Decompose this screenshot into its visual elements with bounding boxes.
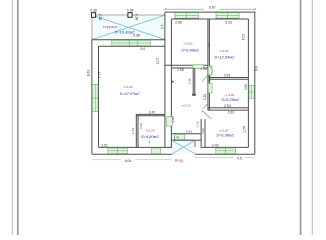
svg-text:0.41: 0.41 [186, 129, 192, 133]
svg-text:2.53: 2.53 [224, 104, 231, 108]
corridor partition wall [193, 68, 195, 95]
svg-text:п-3.20: п-3.20 [146, 129, 155, 133]
small room left wall line b [137, 116, 139, 148]
door swing into bottom-right room [203, 111, 212, 119]
wall between terrace/living room and rooms: outer line [164, 12, 166, 147]
corridor top wall inner line [171, 67, 208, 69]
svg-text:2.32: 2.32 [139, 123, 143, 129]
wall rooms 1-2 / middle room left: line a [207, 19, 209, 110]
outer wall: bottom left section inner line [99, 146, 172, 148]
svg-text:S=5.29м2: S=5.29м2 [221, 97, 240, 102]
corridor top wall outer line [165, 64, 208, 66]
svg-text:S=12.54м2: S=12.54м2 [214, 55, 235, 60]
svg-text:2.10: 2.10 [203, 94, 207, 100]
sheet frame right thick line [300, 0, 302, 235]
svg-text:6.87: 6.87 [209, 5, 216, 9]
svg-text:4.51: 4.51 [242, 34, 246, 41]
dimension line 6.87 [164, 8, 256, 10]
outer wall: left inner line [98, 46, 100, 147]
door to room 2 [208, 66, 212, 75]
svg-text:S=47.87м2: S=47.87м2 [120, 91, 141, 96]
outer wall: bottom right section outer line [195, 153, 255, 155]
door swing lower [203, 103, 208, 109]
entrance door [174, 134, 184, 140]
window in right wall [249, 86, 254, 99]
svg-text:п-3.20: п-3.20 [124, 85, 133, 89]
dimension line 4.5 [195, 157, 255, 159]
outer wall: right outer line [254, 12, 256, 154]
terrace floor area [92, 15, 165, 40]
wall stub cap left of corridor [171, 81, 173, 83]
svg-text:терраса: терраса [103, 25, 118, 29]
porch diagonal cross [172, 140, 195, 154]
svg-text:1.74: 1.74 [243, 126, 247, 133]
door swing middle room [202, 76, 207, 82]
svg-text:0.90: 0.90 [208, 75, 212, 81]
small room bottom door [152, 148, 161, 154]
corridor partition end cap [192, 94, 196, 96]
terrace diagonal cross [92, 15, 165, 39]
small room top wall line a [136, 113, 165, 115]
wall middle room bottom line b [208, 109, 249, 111]
svg-text:8.63: 8.63 [86, 70, 90, 77]
svg-text:1.5: 1.5 [160, 24, 164, 29]
entrance porch area [172, 140, 195, 154]
wall room2 bottom line b [209, 78, 248, 80]
svg-text:0.38: 0.38 [127, 8, 134, 12]
sheet frame left thick line [17, 0, 19, 235]
outer wall: top of right section outer line [165, 11, 255, 13]
svg-text:S=9.99м2: S=9.99м2 [181, 47, 200, 52]
outer wall: top of left section inner line [99, 45, 166, 47]
outer wall: top of left section (below terrace) outer line [92, 39, 166, 41]
column 2 [128, 13, 132, 18]
svg-text:4.5: 4.5 [237, 156, 242, 160]
door swing room 2 [210, 66, 212, 75]
svg-text:п-3.20: п-3.20 [184, 42, 193, 46]
svg-text:2.60: 2.60 [244, 84, 248, 90]
outer wall: bottom left section outer line [92, 153, 172, 155]
window in bottom wall left [108, 148, 127, 154]
svg-text:3.33: 3.33 [225, 21, 232, 25]
svg-text:2.86: 2.86 [175, 21, 182, 25]
svg-text:6.04: 6.04 [125, 159, 132, 163]
door jamb mark [202, 110, 204, 112]
window 2 in top wall [216, 13, 239, 19]
window in left wall [92, 84, 98, 112]
svg-text:1.47: 1.47 [174, 135, 180, 139]
svg-text:2.91: 2.91 [101, 143, 108, 147]
wall rooms 1-2 / middle room left: line b [208, 19, 210, 110]
outer wall: top of right section inner line [171, 18, 248, 20]
door in corridor top wall [193, 65, 204, 69]
svg-text:2.43: 2.43 [212, 143, 219, 147]
svg-text:2.63: 2.63 [228, 110, 235, 114]
svg-text:1.73: 1.73 [131, 128, 135, 134]
svg-text:1.68: 1.68 [177, 68, 184, 72]
svg-text:S=4.80м2: S=4.80м2 [141, 134, 160, 139]
dimension line 6.04 [92, 159, 172, 161]
svg-text:7.57: 7.57 [97, 72, 101, 79]
door to middle room [208, 83, 212, 92]
svg-text:Вход: Вход [175, 158, 184, 162]
outer wall: right inner line [247, 19, 249, 147]
svg-text:0.38: 0.38 [134, 14, 138, 21]
column 1 [91, 13, 95, 18]
svg-text:0.38: 0.38 [90, 8, 97, 12]
hall bottom wall line b [171, 139, 201, 141]
window in bottom wall right [216, 148, 236, 154]
small room left wall line a [135, 114, 137, 147]
svg-text:2.47: 2.47 [149, 110, 156, 114]
bottom-right room left wall line a [200, 119, 202, 147]
svg-text:1.19: 1.19 [196, 121, 200, 127]
svg-text:2.53: 2.53 [224, 74, 231, 78]
window in top wall of living room [112, 40, 151, 45]
outer wall: left outer line [91, 40, 93, 154]
svg-text:3.02: 3.02 [201, 128, 205, 134]
svg-text:1.10: 1.10 [200, 67, 206, 71]
wall between terrace/living room and rooms: inner line [170, 19, 172, 147]
window 1 in top wall [175, 13, 198, 19]
svg-text:0.90: 0.90 [171, 116, 175, 122]
wall room2 bottom line a [209, 77, 248, 79]
svg-text:S=10.42м2: S=10.42м2 [115, 30, 136, 35]
bottom-right room left wall line b [204, 119, 206, 147]
sheet frame right thin line [311, 0, 313, 235]
outer wall: bottom right section inner line [201, 146, 249, 148]
svg-text:9.6: 9.6 [254, 66, 258, 71]
svg-text:п-3.20: п-3.20 [182, 104, 191, 108]
hall bottom wall line a [171, 133, 201, 135]
small room top wall line b [136, 115, 165, 117]
wall middle room bottom line a [208, 107, 249, 109]
svg-text:5.38: 5.38 [133, 34, 140, 38]
svg-text:0.38: 0.38 [98, 14, 102, 21]
svg-text:5.0: 5.0 [140, 47, 145, 51]
svg-text:3.07: 3.07 [156, 58, 160, 65]
svg-text:3.5: 3.5 [207, 43, 211, 48]
sheet frame left thin line [11, 0, 13, 235]
svg-text:S=9.38м2: S=9.38м2 [216, 132, 235, 137]
svg-text:п-3.20: п-3.20 [220, 49, 229, 53]
svg-text:1.94: 1.94 [187, 78, 191, 84]
door living room [167, 117, 173, 127]
